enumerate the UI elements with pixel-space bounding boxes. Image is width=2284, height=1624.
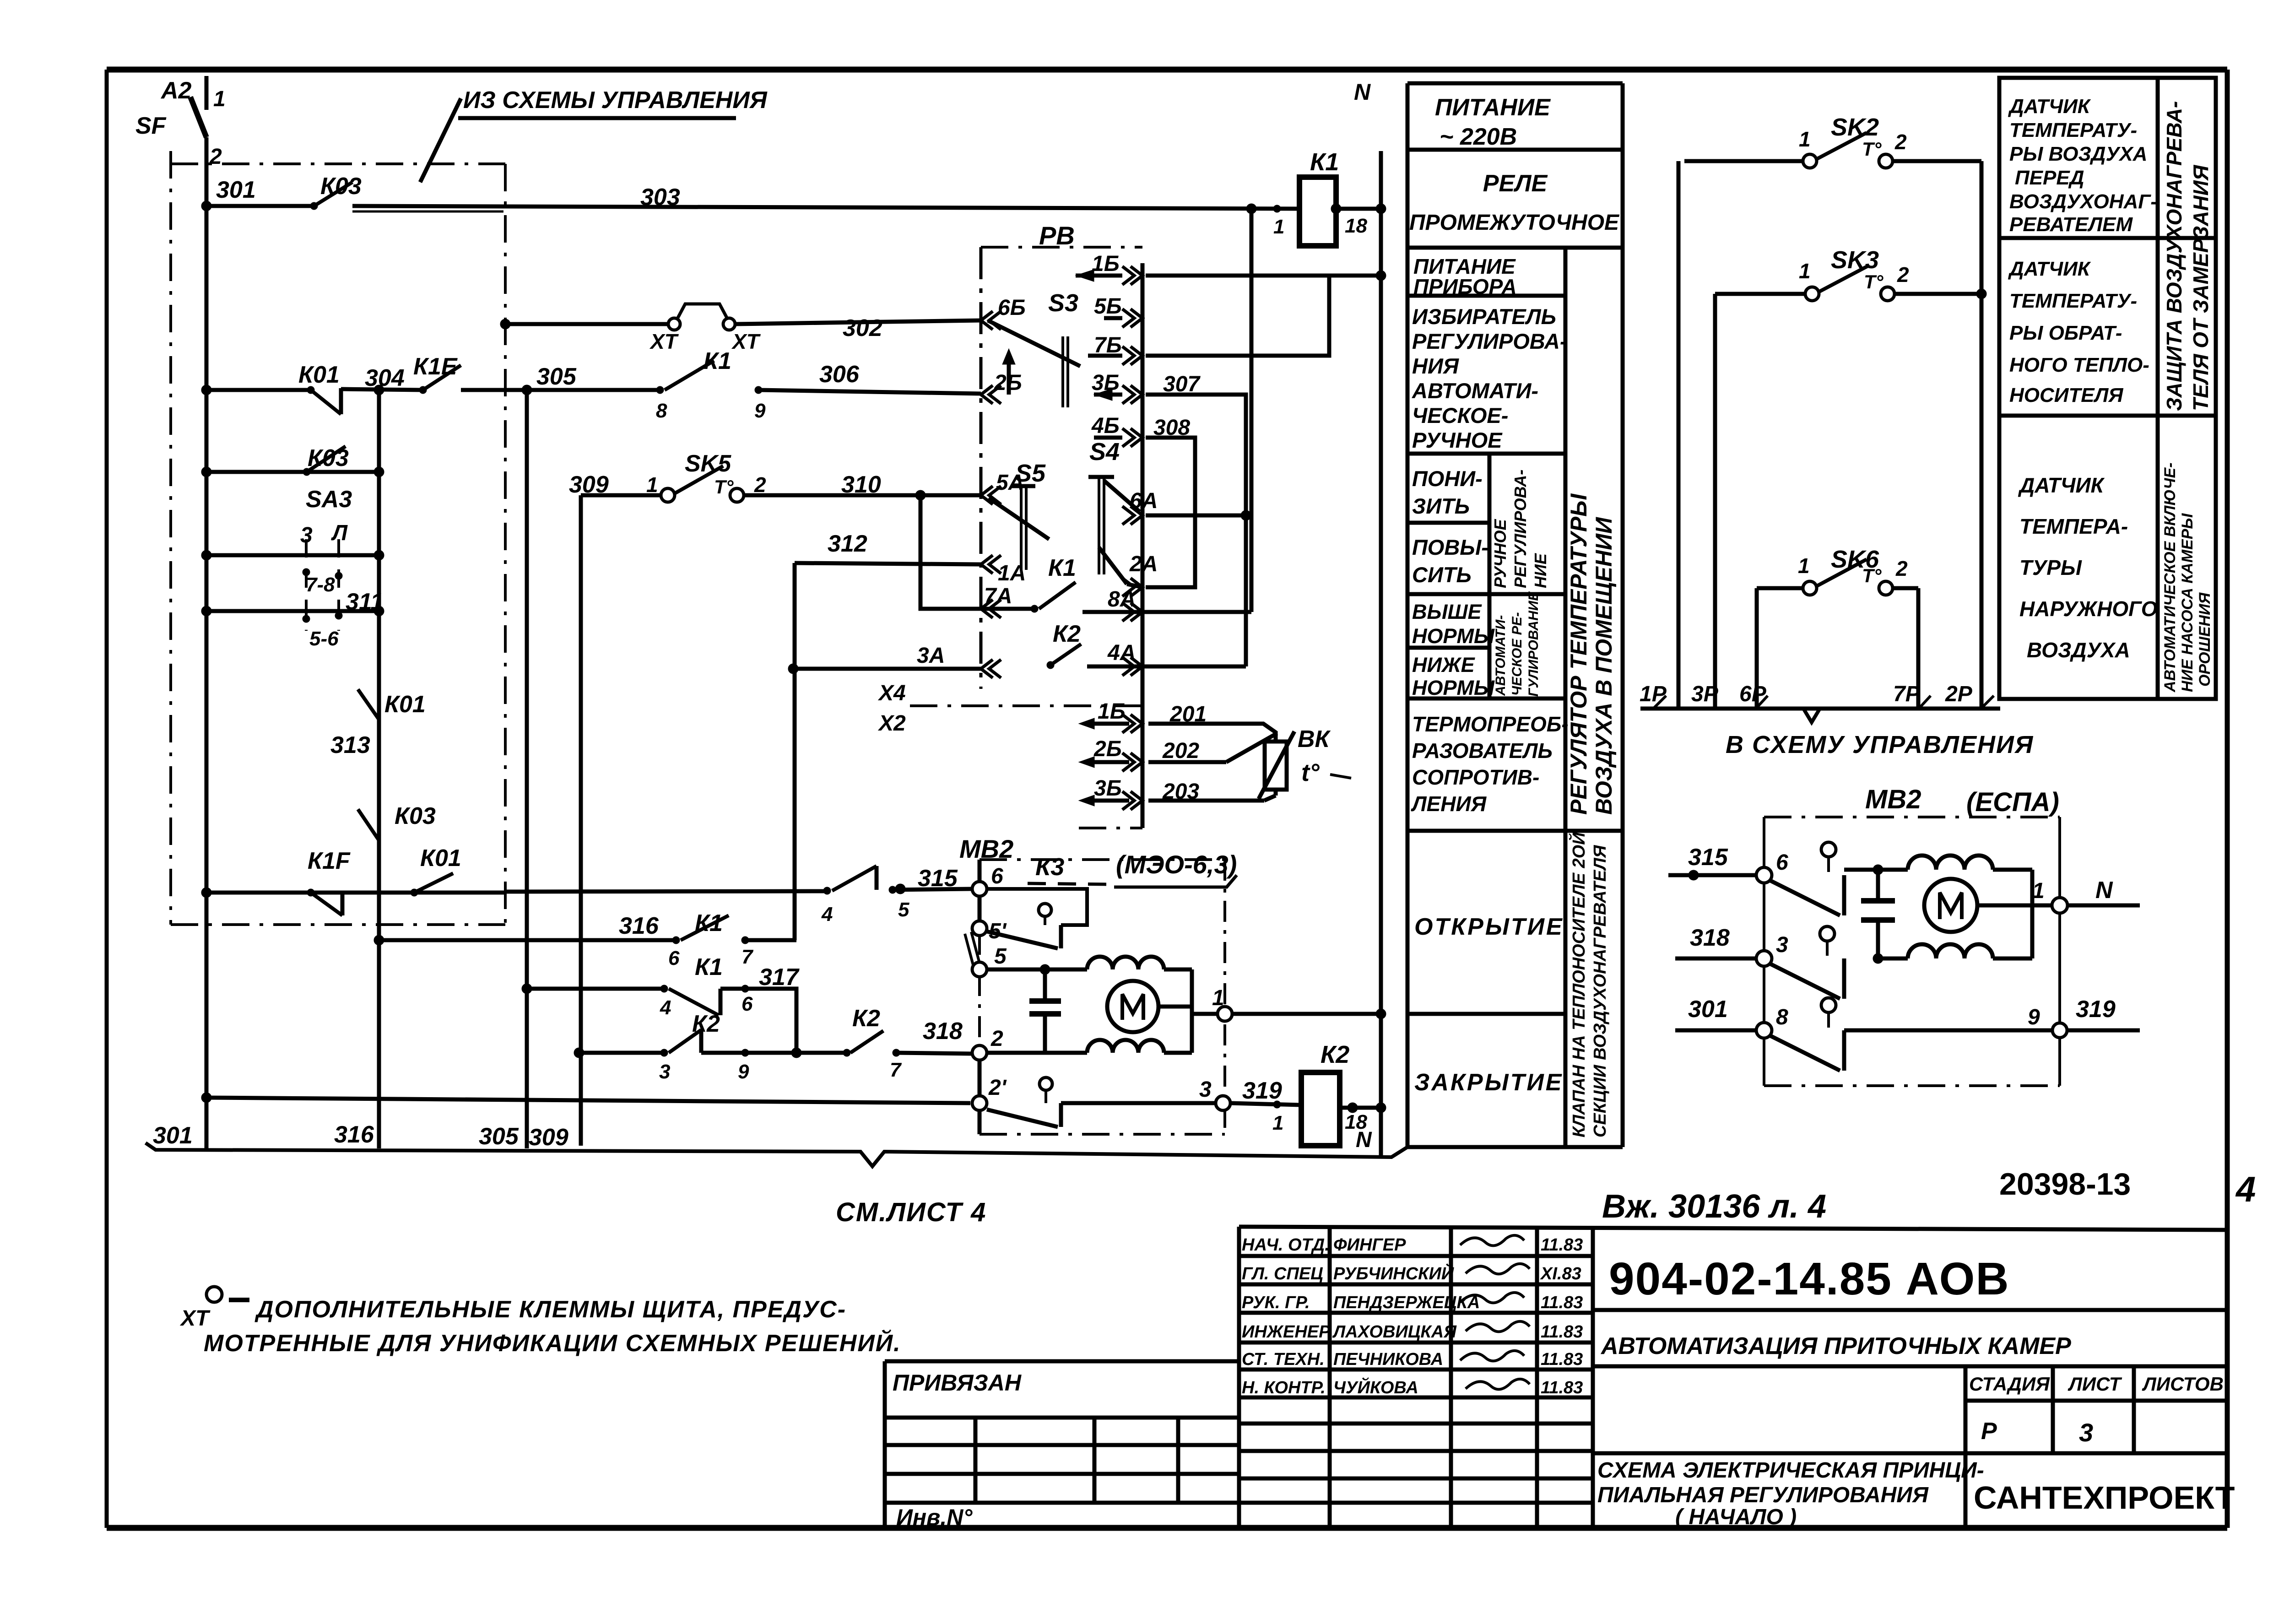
svg-text:XI.83: XI.83 (1540, 1264, 1581, 1283)
svg-text:t°: t° (1301, 759, 1320, 786)
svg-text:К03: К03 (395, 803, 436, 829)
switch S3 (988, 289, 1080, 407)
svg-text:11.83: 11.83 (1541, 1322, 1583, 1342)
wire 2Р vertical (1980, 161, 1984, 709)
wire 319 to K2 coil (1230, 1077, 1300, 1134)
contact K01 (row 1950) (411, 845, 461, 896)
panel boundary dash-dot right (504, 164, 507, 925)
vertical wire 305 (525, 390, 529, 1148)
svg-text:9: 9 (2028, 1005, 2040, 1029)
svg-text:5Б: 5Б (1094, 294, 1122, 319)
svg-text:ХТ: ХТ (731, 330, 761, 353)
svg-text:1Б: 1Б (1098, 699, 1126, 724)
svg-text:316: 316 (619, 913, 659, 939)
choke lower (MB2-2) (1908, 944, 1993, 958)
wire 318 row (574, 1048, 801, 1058)
svg-text:НОРМЫ: НОРМЫ (1412, 676, 1495, 699)
cell text: Реле промежуточное (1409, 170, 1620, 235)
svg-text:РУЧНОЕ: РУЧНОЕ (1491, 519, 1510, 588)
svg-text:312: 312 (828, 531, 867, 557)
svg-text:( НАЧАЛО ): ( НАЧАЛО ) (1675, 1505, 1797, 1529)
svg-text:7-8: 7-8 (306, 574, 335, 596)
svg-text:5: 5 (994, 944, 1007, 969)
svg-text:301: 301 (1688, 996, 1728, 1023)
svg-text:АВТОМАТИ-: АВТОМАТИ- (1412, 379, 1538, 403)
vertical wire 828 (377, 390, 381, 1148)
svg-text:4: 4 (821, 903, 833, 926)
svg-text:РЫ ОБРАТ-: РЫ ОБРАТ- (2009, 322, 2122, 344)
svg-text:РАЗОВАТЕЛЬ: РАЗОВАТЕЛЬ (1412, 739, 1553, 763)
svg-text:3: 3 (1776, 933, 1788, 957)
svg-text:ДОПОЛНИТЕЛЬНЫЕ КЛЕММЫ ЩИТА,: ДОПОЛНИТЕЛЬНЫЕ КЛЕММЫ ЩИТА, ПРЕДУС- (254, 1296, 846, 1323)
svg-text:Т°: Т° (714, 476, 734, 498)
terminal 6 (MB2-1) (972, 864, 1003, 896)
terminal N circle (MB2-2) (2052, 898, 2068, 913)
svg-text:S5: S5 (1015, 460, 1046, 487)
svg-text:СХЕМА ЭЛЕКТРИЧЕСКАЯ ПРИНЦИ-: СХЕМА ЭЛЕКТРИЧЕСКАЯ ПРИНЦИ- (1597, 1458, 1984, 1483)
terminal 5Б (1094, 294, 1142, 327)
svg-text:2: 2 (754, 473, 766, 497)
svg-text:К1: К1 (704, 348, 731, 374)
wire 1-N (MB2-2) (2032, 879, 2052, 905)
svg-text:ВОЗДУХА: ВОЗДУХА (2027, 638, 2130, 662)
svg-text:МОТРЕННЫЕ ДЛЯ УНИФИКАЦИИ СХ: МОТРЕННЫЕ ДЛЯ УНИФИКАЦИИ СХЕМНЫХ РЕШЕНИЙ… (204, 1329, 901, 1357)
svg-text:Т°: Т° (1862, 138, 1882, 160)
wire N out (2068, 877, 2140, 905)
title block: Автоматизация приточных камер (1593, 1333, 2227, 1366)
svg-text:ЛАХОВИЦКАЯ: ЛАХОВИЦКАЯ (1332, 1322, 1457, 1342)
svg-text:Вж. 30136 л. 4: Вж. 30136 л. 4 (1602, 1188, 1826, 1225)
terminal 4А (1087, 641, 1142, 676)
cell text: Питание прибора (1413, 254, 1517, 298)
cell text: Питание ~220В (1435, 94, 1551, 150)
svg-text:3: 3 (659, 1061, 670, 1083)
title block: signature table (1239, 1227, 2227, 1528)
svg-text:20398-13: 20398-13 (1999, 1167, 2131, 1202)
svg-text:ЗАКРЫТИЕ: ЗАКРЫТИЕ (1414, 1069, 1563, 1096)
svg-text:6: 6 (668, 947, 680, 969)
svg-text:(МЭО-6,3): (МЭО-6,3) (1116, 850, 1237, 879)
svg-text:3: 3 (1199, 1077, 1212, 1102)
contact K2 (row 3A-4A) (1047, 621, 1081, 669)
terminal 3Б (1092, 371, 1142, 404)
svg-text:3Б: 3Б (1094, 776, 1122, 801)
svg-text:К03: К03 (320, 173, 362, 200)
svg-text:ПИАЛЬНАЯ РЕГУЛИРОВАНИЯ: ПИАЛЬНАЯ РЕГУЛИРОВАНИЯ (1597, 1483, 1929, 1507)
svg-text:1: 1 (213, 87, 226, 111)
thermal switch SK3 (1715, 246, 1986, 301)
svg-text:319: 319 (1242, 1077, 1282, 1104)
svg-text:309: 309 (529, 1124, 568, 1151)
svg-text:6Б: 6Б (998, 296, 1026, 320)
svg-text:ЗИТЬ: ЗИТЬ (1412, 494, 1470, 518)
rotated text: Автоматическое регулирование (1493, 591, 1541, 697)
contact open (8) right (1770, 998, 2053, 1071)
svg-text:СТ. ТЕХН.: СТ. ТЕХН. (1242, 1350, 1325, 1369)
wire 310 (744, 471, 981, 500)
svg-text:К1: К1 (1048, 555, 1076, 581)
svg-text:11.83: 11.83 (1541, 1350, 1583, 1369)
choke upper (MB2-2) (1908, 855, 1993, 870)
svg-text:Х2: Х2 (877, 711, 906, 736)
svg-text:~ 220В: ~ 220В (1440, 124, 1517, 150)
svg-text:НОГО ТЕПЛО-: НОГО ТЕПЛО- (2009, 354, 2149, 376)
svg-text:S4: S4 (1089, 438, 1120, 466)
choke lower (MB2-1) (1087, 1040, 1164, 1053)
svg-text:7А: 7А (984, 584, 1012, 608)
svg-text:2: 2 (1897, 263, 1909, 287)
svg-text:4: 4 (660, 996, 671, 1019)
svg-text:2Б: 2Б (1093, 737, 1122, 761)
svg-text:6: 6 (1776, 850, 1788, 875)
svg-text:2А: 2А (1129, 552, 1158, 576)
cell text: Выше нормы (1412, 600, 1495, 648)
svg-text:5': 5' (989, 919, 1007, 943)
wire 304 (341, 365, 423, 395)
svg-text:4А: 4А (1107, 641, 1136, 665)
svg-text:ГУЛИРОВАНИЕ: ГУЛИРОВАНИЕ (1526, 591, 1541, 697)
terminal 3 circle (MB2-1) (1199, 1077, 1230, 1110)
panel boundary dash-dot top (171, 162, 505, 165)
contact K03 (row 1031) (303, 445, 349, 476)
svg-text:РУЧНОЕ: РУЧНОЕ (1412, 428, 1503, 452)
svg-text:2Р: 2Р (1945, 682, 1973, 706)
terminal 6А (1122, 489, 1158, 525)
svg-text:317: 317 (759, 964, 800, 991)
terminal 8А (1122, 603, 1142, 621)
rotated text: автоматическое включение насоса камеры орошения (2161, 463, 2214, 693)
svg-text:НИЯ: НИЯ (1412, 354, 1460, 378)
svg-text:КЛАПАН НА ТЕПЛОНОСИТЕЛЕ 2ОЙ: КЛАПАН НА ТЕПЛОНОСИТЕЛЕ 2ОЙ (1568, 832, 1589, 1137)
svg-text:3Р: 3Р (1691, 682, 1719, 706)
wire 1Б to N bus (1146, 274, 1381, 278)
svg-text:РЫ ВОЗДУХА: РЫ ВОЗДУХА (2009, 143, 2147, 165)
svg-text:К1: К1 (695, 954, 723, 980)
svg-text:ВЫШЕ: ВЫШЕ (1412, 600, 1483, 623)
sensor box: датчик температуры наружного воздуха (1999, 416, 2216, 699)
svg-text:ИНЖЕНЕР: ИНЖЕНЕР (1242, 1322, 1331, 1342)
svg-text:316: 316 (334, 1121, 374, 1148)
terminal 2' (MB2-1) (972, 1076, 1007, 1110)
contact K1E (413, 353, 461, 394)
svg-text:Н. КОНТР.: Н. КОНТР. (1242, 1378, 1326, 1397)
circuit breaker SF (A2) (135, 76, 226, 169)
wire 201 (1148, 702, 1276, 742)
svg-text:ПЕРЕД: ПЕРЕД (2015, 167, 2084, 189)
svg-text:ЛИСТ: ЛИСТ (2068, 1373, 2122, 1395)
svg-text:К01: К01 (420, 845, 461, 872)
svg-text:302: 302 (843, 315, 882, 341)
svg-text:SF: SF (135, 113, 167, 139)
svg-text:РУБЧИНСКИЙ: РУБЧИНСКИЙ (1333, 1263, 1454, 1283)
contact K1 (row 306) pins 8-9 (656, 348, 766, 422)
svg-text:НОРМЫ: НОРМЫ (1412, 624, 1495, 648)
motor link vertical (MB2-1) (1190, 969, 1194, 1053)
signature rows text (1242, 1235, 1583, 1397)
svg-text:6А: 6А (1130, 489, 1158, 513)
svg-text:Т°: Т° (1864, 271, 1884, 292)
svg-text:1Р: 1Р (1640, 682, 1667, 706)
svg-text:3А: 3А (917, 644, 945, 668)
svg-text:ПРОМЕЖУТОЧНОЕ: ПРОМЕЖУТОЧНОЕ (1409, 211, 1620, 235)
relay PB (time relay) box top (981, 221, 1142, 250)
terminal 5 (MB2-1) (972, 944, 1007, 977)
terminal 6 (MB2-2) (1756, 850, 1788, 883)
wire 319 out (2067, 996, 2140, 1030)
svg-text:НОСИТЕЛЯ: НОСИТЕЛЯ (2009, 384, 2123, 406)
title block: стадия лист листов header (1965, 1366, 2227, 1453)
svg-text:К2: К2 (852, 1005, 880, 1032)
svg-text:4: 4 (2235, 1169, 2256, 1209)
motor M1 (MB2-1) (1107, 981, 1192, 1032)
svg-text:РЕГУЛИРОВА-: РЕГУЛИРОВА- (1511, 470, 1530, 588)
wire 318 into 2 (987, 1051, 1061, 1055)
svg-text:К2: К2 (1321, 1041, 1349, 1068)
contact K1F (307, 848, 351, 915)
vertical wire 310 to 7A (920, 495, 981, 609)
cell text: Повысить (1412, 535, 1488, 587)
svg-text:ДАТЧИК: ДАТЧИК (2008, 95, 2091, 118)
contact K03 (row 301) (310, 173, 362, 210)
svg-text:N: N (2095, 877, 2113, 904)
wire row 2' long (206, 1098, 970, 1103)
choke upper (MB2-1) (1087, 957, 1164, 969)
svg-text:ТЕМПЕРАТУ-: ТЕМПЕРАТУ- (2009, 290, 2137, 312)
wire 7Б riser (1146, 276, 1329, 356)
cell text: Ниже нормы (1412, 653, 1495, 699)
terminal 1Б (X2) (1079, 699, 1142, 733)
svg-text:РУК. ГР.: РУК. ГР. (1242, 1293, 1310, 1312)
bus to control circuit with labels (1640, 682, 2000, 722)
svg-text:РЕВАТЕЛЕМ: РЕВАТЕЛЕМ (2009, 213, 2133, 236)
wire segment row 304 (206, 388, 311, 392)
wire 303 (352, 184, 1299, 211)
svg-text:318: 318 (923, 1018, 963, 1045)
svg-text:ВК: ВК (1298, 726, 1331, 752)
wire 318 (right) (1675, 925, 1757, 958)
wire 301 (right) (1675, 996, 1757, 1030)
svg-text:СМ.ЛИСТ 4: СМ.ЛИСТ 4 (836, 1197, 986, 1227)
svg-text:К2: К2 (1053, 621, 1081, 647)
rotated text: защита воздухонагревателя от замерзания (2162, 101, 2213, 411)
svg-text:СЕКЦИИ ВОЗДУХОНАГРЕВАТЕЛЯ: СЕКЦИИ ВОЗДУХОНАГРЕВАТЕЛЯ (1591, 844, 1610, 1137)
svg-text:ПИТАНИЕ: ПИТАНИЕ (1435, 94, 1551, 121)
svg-text:АВТОМАТИЧЕСКОЕ ВКЛЮЧЕ-: АВТОМАТИЧЕСКОЕ ВКЛЮЧЕ- (2161, 463, 2179, 693)
panel boundary dash-dot bottom (171, 923, 505, 926)
wire 3Р vertical (1713, 294, 1717, 709)
svg-text:СТАДИЯ: СТАДИЯ (1969, 1373, 2050, 1395)
terminal 3 (MB2-2) (1756, 933, 1788, 966)
actuator 2 boundary dash-dot (1764, 817, 2060, 1086)
terminal 1 circle (MB2-1) (1218, 1007, 1232, 1021)
terminal 5А (981, 471, 1024, 504)
contact K2 (row 318 right) (843, 1005, 972, 1081)
wire 4А stub (1142, 665, 1246, 669)
svg-text:А2: А2 (160, 77, 192, 104)
bus wire 301 vertical (205, 137, 209, 1148)
svg-text:7: 7 (890, 1059, 902, 1081)
svg-text:8: 8 (1776, 1005, 1788, 1029)
switch S5 (989, 460, 1049, 570)
vertical wire 309 (579, 495, 583, 1146)
switch S4 (1088, 438, 1142, 587)
svg-text:ОРОШЕНИЯ: ОРОШЕНИЯ (2196, 592, 2214, 687)
wire 316 (374, 913, 676, 945)
svg-text:2: 2 (209, 145, 222, 169)
wire 308 (1146, 416, 1195, 587)
svg-text:N: N (1356, 1128, 1372, 1152)
terminal 1Б (1076, 252, 1142, 285)
svg-text:НИЖЕ: НИЖЕ (1412, 653, 1476, 677)
svg-text:Х4: Х4 (877, 681, 906, 705)
svg-text:ТЕМПЕРА-: ТЕМПЕРА- (2019, 514, 2128, 538)
svg-text:ТЕМПЕРАТУ-: ТЕМПЕРАТУ- (2009, 119, 2137, 141)
svg-text:СОПРОТИВ-: СОПРОТИВ- (1412, 765, 1539, 789)
svg-text:8: 8 (656, 400, 667, 422)
connector X4/X2 boundary (877, 681, 1142, 736)
svg-text:202: 202 (1162, 739, 1199, 763)
contact open (3) right (1770, 926, 1844, 999)
terminal 2Б (981, 371, 1022, 404)
wire 5 to motor node (987, 964, 1087, 974)
terminal 4Б (1091, 414, 1142, 447)
terminal 2 (MB2-1) (972, 1027, 1003, 1060)
wire 315 into 6 (895, 884, 905, 894)
svg-text:1: 1 (1272, 1112, 1283, 1134)
svg-text:3: 3 (2079, 1418, 2093, 1447)
terminal 2Б (X2) (1079, 737, 1142, 771)
sensor box: датчик температуры воздуха перед воздухонагревателем (1999, 78, 2216, 238)
arrow up near 2Б (1002, 349, 1015, 395)
svg-text:1: 1 (646, 473, 658, 497)
svg-text:ТУРЫ: ТУРЫ (2019, 556, 2082, 579)
svg-text:ЧУЙКОВА: ЧУЙКОВА (1333, 1377, 1418, 1397)
svg-text:К01: К01 (384, 691, 426, 718)
wire 315 (893, 865, 972, 892)
bus N vertical (1354, 79, 1381, 1158)
svg-text:ДАТЧИК: ДАТЧИК (2018, 473, 2105, 497)
svg-text:ФИНГЕР: ФИНГЕР (1333, 1235, 1406, 1255)
svg-text:СИТЬ: СИТЬ (1412, 563, 1472, 587)
svg-text:2: 2 (1894, 130, 1907, 154)
svg-text:319: 319 (2076, 996, 2116, 1023)
wire 3A (788, 644, 981, 674)
svg-text:ВОЗДУХА В ПОМЕЩЕНИИ: ВОЗДУХА В ПОМЕЩЕНИИ (1591, 517, 1617, 815)
wire 302 segment from panel (505, 322, 669, 326)
contact K3 (821, 853, 1064, 926)
signature scribbles (1460, 1235, 1530, 1389)
svg-text:6: 6 (991, 864, 1003, 888)
svg-text:ОТКРЫТИЕ: ОТКРЫТИЕ (1414, 914, 1564, 940)
cell text: Понизить (1412, 466, 1483, 518)
switch SA3 selector (300, 486, 352, 650)
wire 203 (1148, 780, 1276, 804)
svg-text:РЕЛЕ: РЕЛЕ (1483, 170, 1548, 197)
svg-text:305: 305 (479, 1123, 519, 1150)
panel boundary dash-dot left (169, 151, 172, 925)
svg-text:1: 1 (2032, 879, 2045, 903)
svg-text:К3: К3 (1035, 853, 1064, 881)
X2 dash stub bottom (1079, 827, 1142, 829)
svg-text:ЧЕСКОЕ-: ЧЕСКОЕ- (1412, 403, 1508, 428)
actuator MB2 label (959, 834, 1013, 863)
device terminal strip A (dash-dot) (980, 247, 983, 689)
title block: схема электрическая принципиальная (1593, 1453, 2227, 1529)
table: device description column (1407, 83, 1623, 1147)
svg-text:НАЧ. ОТД.: НАЧ. ОТД. (1242, 1235, 1330, 1255)
svg-text:ХТ: ХТ (179, 1306, 211, 1331)
node junction 828-1031 (374, 467, 384, 477)
vertical wire 312-316 (793, 563, 797, 940)
svg-text:1: 1 (1798, 554, 1810, 578)
actuator 1 boundary dash-dot (980, 860, 1225, 1134)
svg-text:АВТОМАТИ-: АВТОМАТИ- (1493, 615, 1508, 696)
svg-text:5: 5 (898, 899, 909, 921)
terminals XT-XT bridge (649, 304, 761, 353)
rotated text: Ручное регулирование (1491, 470, 1550, 588)
terminal 2А (1122, 552, 1158, 596)
wire 312 (795, 531, 981, 564)
terminal 9 circle (MB2-2) (2028, 1005, 2067, 1038)
svg-text:К01: К01 (298, 362, 340, 388)
contact K01 (row 304) (298, 362, 341, 414)
svg-text:7Р: 7Р (1893, 682, 1921, 706)
wire row K1F/K01 (206, 891, 505, 895)
wire 7Р vertical (1916, 588, 1921, 709)
wire row K3/315 (505, 891, 827, 892)
svg-text:2': 2' (988, 1076, 1007, 1100)
svg-text:ИЗБИРАТЕЛЬ: ИЗБИРАТЕЛЬ (1412, 304, 1556, 329)
contact K1 (row 317) (660, 954, 796, 1053)
svg-text:РВ: РВ (1039, 221, 1075, 250)
svg-text:18: 18 (1345, 215, 1367, 237)
svg-text:6: 6 (741, 993, 753, 1015)
wire 1Р vertical (1677, 161, 1681, 709)
wire 202 (1148, 733, 1277, 763)
cell text: Термопреобразователь сопротивления (1411, 712, 1569, 816)
capacitor (MB2-1) (1029, 969, 1061, 1053)
svg-text:9: 9 (754, 400, 766, 422)
rotated text: Клапан на теплоносителе 2-ой секции воздухонагревателя (1568, 832, 1610, 1137)
svg-text:7: 7 (741, 946, 754, 968)
wire 6А stub (1146, 514, 1246, 518)
svg-text:ЧЕСКОЕ РЕ-: ЧЕСКОЕ РЕ- (1510, 612, 1525, 696)
thermal switch SK5 (646, 450, 766, 502)
note: дополнительные клеммы щита (179, 1287, 901, 1357)
svg-text:ЗАЩИТА ВОЗДУХОНАГРЕВА-: ЗАЩИТА ВОЗДУХОНАГРЕВА- (2162, 101, 2186, 411)
thermal resistor BK (1259, 726, 1351, 799)
svg-text:11.83: 11.83 (1541, 1235, 1583, 1255)
terminal 5' (MB2-1) (972, 919, 1007, 943)
svg-text:ВОЗДУХОНАГ-: ВОЗДУХОНАГ- (2009, 190, 2157, 213)
svg-text:НАРУЖНОГО: НАРУЖНОГО (2019, 597, 2158, 621)
wire to terminal 1 (MB2-1) (1192, 986, 1224, 1014)
mechanical link 5'-5 (965, 932, 980, 965)
sensor box: датчик температуры обратного теплоносителя (1999, 238, 2216, 416)
svg-text:1: 1 (1799, 259, 1811, 283)
cell text: Избиратель регулирования автоматическое-ручное (1412, 304, 1567, 452)
wire 305 (461, 363, 660, 395)
svg-text:306: 306 (819, 361, 860, 388)
wire K2-N (1340, 1103, 1386, 1152)
svg-text:11.83: 11.83 (1541, 1378, 1583, 1397)
terminal 8 (MB2-2) (1756, 1005, 1788, 1038)
wire 311 (201, 589, 384, 616)
thermal switch SK2 (1684, 114, 1981, 168)
vertical wire 303-8А (1250, 209, 1254, 612)
title block: привязан table (885, 1361, 1239, 1530)
svg-text:315: 315 (1688, 844, 1728, 871)
